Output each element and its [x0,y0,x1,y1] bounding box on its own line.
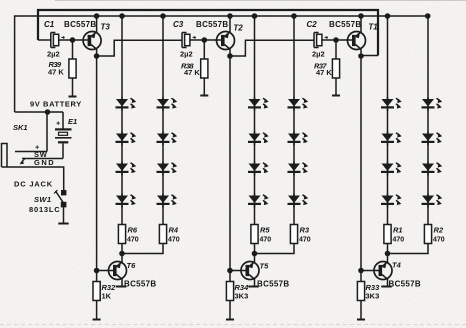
svg-text:BC557B: BC557B [257,280,289,289]
capacitor C1 [51,33,65,48]
LED D column6 row1 [422,97,443,111]
transistor T5 BC557B [254,254,256,263]
node R1/R2 junction [385,251,391,257]
wire T6 collector to ground [121,279,123,286]
node T4 base [358,268,364,274]
svg-text:T2: T2 [233,24,243,33]
resistor R6 470 [118,225,125,244]
svg-text:BC557B: BC557B [389,280,421,289]
wire top rail (T1 collector feedback) [38,10,378,56]
wire T2 collector [229,49,231,56]
wire T4 collector to ground [387,279,389,286]
wire T3 collector to T6 base [96,56,98,271]
transistor T4 BC557B [387,254,389,263]
transistor T2 BC557B [217,32,235,50]
svg-text:R4: R4 [169,226,179,235]
svg-text:2µ2: 2µ2 [180,49,193,58]
wire junction to R4 [122,244,163,254]
wire col2 LEDs [162,106,164,226]
svg-text:T1: T1 [368,23,378,32]
capacitor C3 [182,33,196,48]
wire LED column 6 [427,16,429,99]
switch SW1 8013LC [61,190,66,195]
svg-text:2µ2: 2µ2 [312,49,325,58]
transistor T3 BC557B [83,32,101,50]
svg-text:470: 470 [433,237,445,244]
wire T6 base [97,270,113,272]
svg-text:8013LC: 8013LC [29,205,60,214]
resistor R32 1K [96,271,98,282]
wire battery feed [15,111,63,113]
wire junction to R2 [388,244,429,254]
node T2 collector [227,53,233,59]
svg-text:C3: C3 [173,20,184,29]
transistor T1 BC557B [348,32,366,50]
node rail col5 [385,13,391,19]
wire T3 collector to C3 [97,40,182,56]
LED D column5 row4 [381,194,402,208]
svg-text:R3: R3 [300,226,310,235]
svg-text:T4: T4 [392,261,402,270]
svg-text:+: + [56,119,61,128]
wire T1 collector [360,49,362,56]
wire T2 collector to T5 base [229,56,231,271]
resistor R1 470 [384,225,391,244]
svg-text:470: 470 [168,237,180,244]
LED D column6 row4 [422,194,443,208]
node T6 base [94,268,100,274]
svg-text:R1: R1 [393,226,403,235]
wire LED column 1 [121,16,123,99]
svg-text:BC557B: BC557B [124,279,156,288]
node T5 base [227,268,233,274]
capacitor C2 [314,33,328,48]
resistor R33 3K3 [360,271,362,282]
svg-text:SK1: SK1 [13,123,28,132]
resistor R3 470 [290,225,297,244]
LED D column3 row1 [248,97,269,111]
wire junction to R3 [255,244,295,254]
svg-text:R5: R5 [260,226,270,235]
battery E1 [62,112,64,129]
wire T2 collector to C2 [230,40,314,56]
transistor T6 BC557B [121,254,123,263]
wire T3 emitter to rail [96,16,98,32]
resistor R2 470 [424,225,431,244]
wire col6 LEDs [427,106,429,226]
node rail col1 [119,13,125,19]
ground under SW1 [58,223,68,225]
svg-text:R2: R2 [434,226,444,235]
ground under R34 [226,319,234,321]
wire T1 collector to top rail [361,55,378,57]
wire C1 to T3 base [58,39,88,41]
wire LED column 2 [162,16,164,99]
svg-text:DC JACK: DC JACK [14,179,53,188]
LED D column3 row4 [248,194,269,208]
wire col1 LEDs [121,106,123,226]
LED D column1 row3 [116,162,137,176]
svg-text:E1: E1 [68,117,77,126]
svg-text:T6: T6 [127,261,137,270]
resistor R34 3K3 [229,271,231,282]
node T2 base [202,37,208,43]
resistor R4 470 [159,225,166,244]
wire C3 to T2 base [189,39,221,41]
LED D column4 row1 [288,97,309,111]
svg-text:47 K: 47 K [316,68,332,77]
wire LED column 3 [254,16,256,99]
node R5/R3 junction [252,251,258,257]
wire T4 base [361,270,379,272]
ground under R38 [200,95,208,97]
svg-text:C2: C2 [307,20,318,29]
svg-text:T3: T3 [101,23,111,32]
svg-text:470: 470 [299,237,311,244]
node T3 collector [94,53,100,59]
wire R5 to node [254,244,256,254]
LED D column5 row3 [381,162,402,176]
wire col5 LEDs [387,106,389,226]
LED D column2 row4 [157,194,178,208]
LED D column6 row3 [422,162,443,176]
svg-text:SW1: SW1 [34,195,51,204]
svg-text:R6: R6 [128,226,138,235]
svg-text:BC557B: BC557B [196,20,228,29]
wire LED column 4 [293,16,295,99]
LED D column2 row1 [157,97,178,111]
wire T5 collector to ground [254,279,256,286]
wire col4 LEDs [293,106,295,226]
wire T1 emitter to rail [360,16,362,32]
svg-text:C1: C1 [44,20,55,29]
wire col3 LEDs [254,106,256,226]
node rail col3 [252,13,258,19]
node rail col6 [425,13,431,19]
ground under R37 [332,95,340,97]
node rail col4 [291,13,297,19]
wire C2 to T1 base [321,39,352,41]
node rail col2 [160,13,166,19]
svg-text:47 K: 47 K [184,68,200,77]
wire +9V supply rail [15,16,428,112]
svg-text:3K3: 3K3 [235,292,249,301]
node R6/R4 junction [119,251,125,257]
svg-text:2µ2: 2µ2 [47,49,60,58]
node T1 collector [358,53,364,59]
LED D column4 row2 [288,132,309,146]
background artifacts [55,0,466,2]
LED D column2 row2 [157,132,178,146]
wire SK1 switch pin [22,158,63,160]
LED D column1 row1 [116,97,137,111]
svg-text:T5: T5 [260,262,270,271]
node battery plus [45,109,51,115]
LED D column6 row2 [422,132,443,146]
ground under R33 [357,319,365,321]
LED D column1 row4 [116,194,137,208]
wire T5 base [230,270,246,272]
ground under R39 [69,96,77,98]
wire SK1 plus pin [15,151,47,153]
LED D column5 row1 [381,97,402,111]
resistor R5 470 [251,225,258,244]
svg-text:GND: GND [34,158,55,167]
wire T3 collector [96,49,98,56]
wire LED column 5 [387,16,389,99]
LED D column5 row2 [381,132,402,146]
LED D column3 row2 [248,132,269,146]
LED D column3 row3 [248,162,269,176]
svg-text:9V BATTERY: 9V BATTERY [30,100,82,109]
node T1 base [333,37,339,43]
svg-text:1K: 1K [102,292,112,301]
svg-text:470: 470 [260,237,272,244]
ground under R32 [93,319,101,321]
wire C1 input [38,39,51,41]
LED D column2 row3 [157,162,178,176]
wire T1 collector to T4 base [360,56,362,271]
wire SK1 sleeve [2,167,64,190]
wire T2 emitter to rail [229,16,231,32]
resistor R37 47K [335,40,337,59]
LED D column4 row3 [288,162,309,176]
svg-text:470: 470 [127,237,139,244]
LED D column4 row4 [288,194,309,208]
resistor R38 47K [203,40,205,59]
svg-text:BC557B: BC557B [64,20,96,29]
svg-text:3K3: 3K3 [366,292,380,301]
svg-text:BC557B: BC557B [329,20,361,29]
wire R6 to node [121,244,123,254]
wire R1 to node [387,244,389,254]
svg-text:47 K: 47 K [48,68,64,77]
LED D column1 row2 [116,132,137,146]
node T3 base [70,37,76,43]
resistor R39 47K [72,40,74,59]
svg-text:470: 470 [393,237,405,244]
